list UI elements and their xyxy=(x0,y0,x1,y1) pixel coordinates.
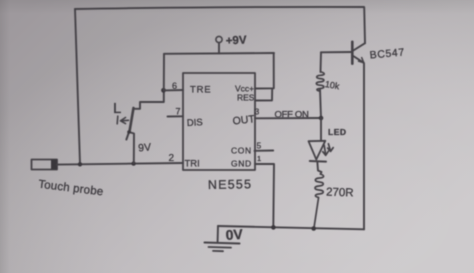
svg-text:LED: LED xyxy=(328,127,347,137)
wire staircase to threshold node xyxy=(134,91,164,109)
node gnd pin junction xyxy=(271,225,276,230)
node trigger junction xyxy=(131,161,135,165)
transistor Q1 BC547 xyxy=(352,7,365,229)
svg-text:3: 3 xyxy=(255,107,260,117)
IC U1 NE555 body xyxy=(183,73,255,170)
resistor R2 270R xyxy=(314,174,324,228)
svg-text:7: 7 xyxy=(176,107,181,117)
wire touch element to trigger xyxy=(129,132,134,163)
svg-text:6: 6 xyxy=(172,81,177,91)
svg-text:RES: RES xyxy=(237,93,255,103)
svg-text:DIS: DIS xyxy=(187,117,203,129)
svg-text:+9V: +9V xyxy=(226,34,248,47)
svg-text:0V: 0V xyxy=(225,226,244,243)
svg-text:OFF ON: OFF ON xyxy=(275,110,310,121)
svg-text:1: 1 xyxy=(257,154,261,163)
transistor Q2 emitter tail xyxy=(126,132,129,140)
svg-text:NE555: NE555 xyxy=(208,177,252,192)
node threshold junction xyxy=(161,88,166,93)
ground xyxy=(205,226,240,251)
pin 5 con stub xyxy=(255,150,274,152)
svg-text:OUT: OUT xyxy=(232,113,256,127)
transistor Q2 touch element bar xyxy=(130,108,134,132)
touch probe xyxy=(32,160,58,170)
pin 6 wire xyxy=(164,89,183,91)
wire left rail xyxy=(75,9,80,164)
svg-text:9V: 9V xyxy=(138,141,152,154)
pin 8 Vcc stub xyxy=(255,53,274,88)
touch arrow xyxy=(117,116,128,124)
svg-text:TRE: TRE xyxy=(190,85,211,96)
wire top rail xyxy=(75,7,364,9)
pin 7 stub xyxy=(168,115,184,117)
node probe-left junction xyxy=(78,162,82,166)
node out junction xyxy=(319,116,324,121)
svg-text:GND: GND xyxy=(231,159,252,169)
svg-text:2: 2 xyxy=(169,153,175,164)
resistor R1 10k xyxy=(320,52,321,118)
pin 4 reset stub xyxy=(255,88,272,100)
svg-text:TRI: TRI xyxy=(185,159,200,170)
wire bottom rail xyxy=(218,226,364,229)
wire trigger line xyxy=(57,163,183,165)
pin 1 gnd wire xyxy=(255,164,274,228)
svg-text:L: L xyxy=(113,100,121,117)
LED D1 xyxy=(309,118,334,174)
svg-text:CON: CON xyxy=(231,146,252,156)
node led branch junction xyxy=(311,226,316,231)
wire top inner rail xyxy=(164,52,274,55)
svg-text:270R: 270R xyxy=(326,187,354,200)
wire Vcc drop to threshold node xyxy=(163,54,165,91)
terminal +9V xyxy=(216,36,222,42)
wire base xyxy=(321,51,352,53)
svg-text:5: 5 xyxy=(257,141,262,151)
pin 3 out wire xyxy=(255,117,321,119)
